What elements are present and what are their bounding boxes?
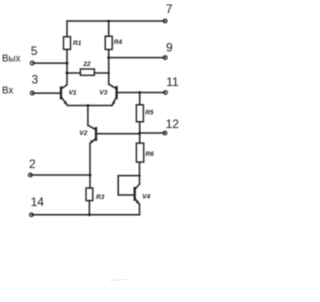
- wire: V3 base to pin 11: [117, 92, 165, 94]
- svg-text:R5: R5: [145, 109, 154, 116]
- wire: R3 bottom lead: [88, 201, 90, 215]
- terminal pin 12: [163, 131, 167, 135]
- node: R5 top junction: [138, 91, 141, 94]
- terminal pin 14: [30, 213, 34, 217]
- node: R2 right junction: [108, 72, 110, 74]
- wire: bottom rail pin 14: [32, 214, 140, 216]
- wire: pin 12 lead: [140, 132, 165, 134]
- wire: emitter bus of V1/V3: [68, 105, 113, 107]
- resistor R5: [136, 105, 143, 122]
- terminal pin 2: [28, 173, 32, 177]
- wire: pin 3 lead to V1 base: [33, 92, 61, 94]
- wire: R2 right lead: [94, 72, 108, 74]
- wire: R4 top drop: [108, 21, 110, 36]
- resistor R4: [105, 36, 112, 49]
- wire: pin 2 lead: [31, 174, 91, 176]
- faint scan smudge: [110, 280, 128, 281]
- terminal pin 9: [163, 56, 167, 60]
- svg-text:11: 11: [166, 75, 179, 89]
- svg-text:9: 9: [166, 41, 173, 55]
- wire: pin 5 lead: [33, 62, 67, 64]
- terminal pin 5: [30, 61, 34, 65]
- wire: V2 emitter down to pin2 node and R3: [89, 144, 91, 188]
- wire: R4 bottom to V3 collector: [108, 50, 110, 85]
- svg-text:R1: R1: [73, 40, 82, 47]
- svg-text:R4: R4: [114, 39, 123, 46]
- wire: V4 base-collector loop: [118, 176, 139, 195]
- terminal pin 3: [30, 91, 34, 95]
- node: emitter bus junction: [87, 104, 90, 107]
- wire: bus down to V2 collector: [87, 106, 89, 126]
- svg-text:V4: V4: [142, 194, 150, 201]
- node: R5/R6/pin12 junction: [138, 132, 141, 135]
- wire: R5 bottom lead: [139, 122, 141, 134]
- node: pin 5 junction: [66, 62, 69, 65]
- svg-text:14: 14: [31, 195, 45, 209]
- svg-text:V1: V1: [69, 90, 77, 97]
- resistor R1: [64, 37, 71, 50]
- node: R4 top junction: [107, 20, 110, 23]
- svg-text:5: 5: [31, 44, 38, 58]
- wire: pin 9 lead: [109, 57, 165, 59]
- wire: R2 left lead: [67, 72, 80, 74]
- resistor R6: [136, 143, 143, 162]
- node: pin 2 junction: [89, 174, 92, 177]
- transistor V2: [79, 125, 96, 144]
- wire: R5 branch top lead: [139, 93, 141, 105]
- transistor V4: [135, 184, 151, 205]
- transistor V1: [61, 85, 77, 106]
- svg-text:Вых: Вых: [2, 53, 21, 64]
- wire: R1 bottom to V1 collector: [66, 49, 68, 84]
- svg-text:2: 2: [29, 157, 36, 171]
- node: V4 loop junction: [138, 174, 140, 176]
- resistor R3: [86, 188, 93, 201]
- svg-text:12: 12: [166, 117, 180, 131]
- resistor R2 value 22: [80, 69, 94, 75]
- wire: top supply rail to pin 7: [67, 21, 165, 37]
- node: pin 9 junction: [107, 56, 110, 59]
- wire: V2 base to R5/R6 node: [97, 133, 140, 135]
- transistor V3: [99, 84, 116, 105]
- svg-text:V3: V3: [99, 90, 107, 97]
- wire: V4 emitter down to bottom rail: [139, 204, 141, 215]
- svg-text:R6: R6: [145, 151, 154, 158]
- svg-text:7: 7: [166, 2, 173, 16]
- svg-text:V2: V2: [79, 130, 87, 137]
- svg-text:3: 3: [32, 72, 39, 86]
- node: R2 left junction: [66, 72, 69, 75]
- svg-text:22: 22: [82, 61, 91, 68]
- svg-text:R3: R3: [96, 194, 105, 201]
- terminal pin 11: [164, 91, 168, 95]
- node: R3 bottom junction: [88, 213, 91, 216]
- svg-text:Вх: Вх: [2, 86, 13, 97]
- terminal pin 7: [163, 19, 167, 23]
- wire: R6 top lead: [139, 134, 141, 143]
- wire: R6 bottom to V4 collector: [139, 162, 141, 184]
